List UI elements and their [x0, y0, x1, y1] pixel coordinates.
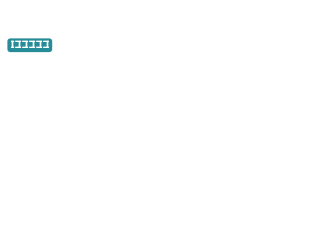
radiator icon	[0, 0, 60, 60]
teal fill through mask	[0, 0, 60, 60]
